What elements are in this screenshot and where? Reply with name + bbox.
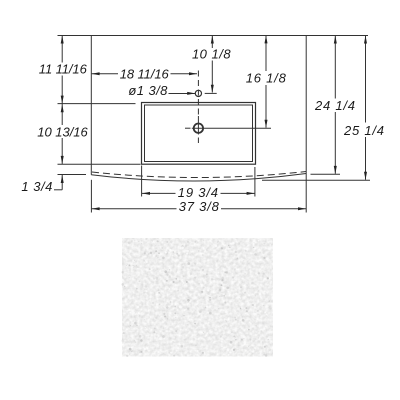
sink bowl inner rectangle [145, 105, 253, 162]
arrowheads for 10 13/16 [61, 104, 64, 112]
countertop right edge with extension to 37 3/8 dimension [305, 36, 307, 213]
faucet/drain vertical centerline [197, 71, 199, 117]
dimension line 18 11/16 [92, 73, 118, 75]
dimension line 10 13/16 [61, 104, 63, 125]
svg-text:16 1/8: 16 1/8 [246, 70, 287, 85]
drain horizontal centerline and 16 1/8 extension line [185, 127, 191, 129]
arrowheads for 18 11/16 [92, 72, 100, 75]
dimension line 11 11/16 [61, 36, 63, 63]
extension lines for 19 3/4 [141, 166, 143, 197]
arrowheads for 37 3/8 [92, 207, 100, 210]
arrowheads for 10 1/8 [211, 36, 214, 44]
dimension line 19 3/4 [142, 192, 176, 194]
drain circle [194, 124, 203, 133]
dimension line 24 1/4 [334, 36, 336, 99]
svg-text:24 1/4: 24 1/4 [314, 98, 355, 113]
dimension line 1 3/4 stem and leader [61, 175, 63, 190]
countertop left edge [90, 36, 92, 175]
countertop bowed front edge (solid) [91, 174, 306, 182]
extension line for 25 1/4 bottom [262, 179, 370, 181]
dimension line 10 1/8 [211, 36, 213, 49]
arrowhead for 1 3/4 [61, 175, 64, 183]
svg-text:37 3/8: 37 3/8 [179, 199, 220, 214]
countertop left extension line to 37 3/8 dimension [90, 180, 92, 213]
svg-text:10 1/8: 10 1/8 [192, 47, 231, 62]
countertop front edge hidden line (dashed) [92, 172, 306, 178]
arrowheads for 25 1/4 [364, 36, 367, 44]
svg-text:18 11/16: 18 11/16 [120, 66, 170, 81]
extension line for 1 3/4 lower [58, 174, 87, 176]
svg-text:19 3/4: 19 3/4 [178, 185, 218, 200]
arrowheads for 16 1/8 [265, 35, 268, 43]
extension line at sink top level (left) [58, 103, 136, 105]
dimension line 37 3/8 [92, 208, 177, 210]
material swatch [121, 238, 273, 357]
extension line for 24 1/4 bottom [311, 173, 341, 175]
arrowheads for 11 11/16 [61, 36, 64, 44]
svg-text:11 11/16: 11 11/16 [39, 61, 88, 76]
dimension line 25 1/4 [365, 36, 367, 123]
svg-text:1 3/4: 1 3/4 [21, 179, 52, 194]
svg-text:25 1/4: 25 1/4 [343, 123, 384, 138]
extension line at sink bottom level (left) [58, 163, 141, 165]
arrowhead for diameter leader [187, 92, 195, 95]
arrowheads for 24 1/4 [334, 36, 337, 44]
sink bowl outer rectangle [142, 103, 256, 165]
faucet hole circle [195, 90, 201, 96]
svg-text:ø1 3/8: ø1 3/8 [128, 83, 168, 98]
svg-text:10 13/16: 10 13/16 [37, 124, 88, 139]
leader line for diameter 1 3/8 [169, 93, 196, 95]
extension line at faucet hole level [205, 92, 217, 94]
countertop top edge with extension [58, 35, 369, 37]
arrowheads for 19 3/4 [142, 192, 150, 195]
dimension line 16 1/8 [265, 35, 267, 71]
